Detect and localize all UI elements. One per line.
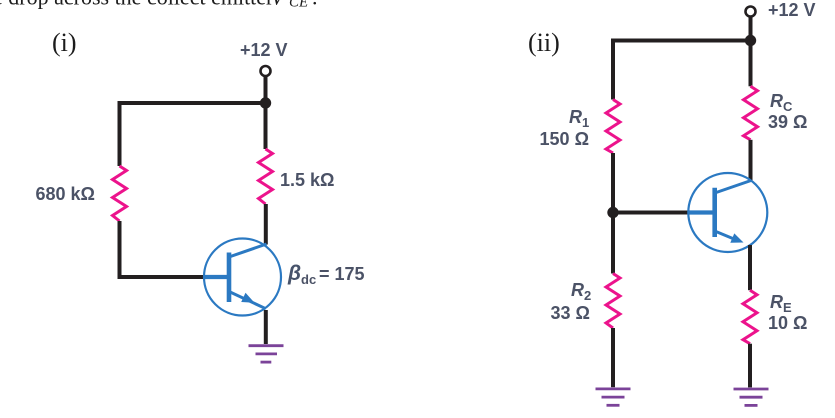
wire: mid node down to R2 (circuit ii)	[611, 213, 615, 274]
svg-text:CE: CE	[289, 0, 308, 10]
svg-text:V: V	[271, 0, 287, 9]
wire: terminal to top node (circuit i)	[264, 77, 268, 104]
svg-text:680 kΩ: 680 kΩ	[36, 184, 95, 204]
svg-text:33 Ω: 33 Ω	[551, 303, 590, 323]
svg-text:R: R	[770, 91, 783, 111]
label R2	[571, 280, 591, 303]
node: base junction (circuit ii)	[607, 207, 618, 218]
svg-text:= 175: = 175	[319, 264, 365, 284]
svg-text:R: R	[770, 292, 783, 312]
wire: emitter to RE (circuit ii)	[748, 245, 752, 290]
node: top junction (circuit ii)	[745, 35, 756, 46]
wire: RE to ground (circuit ii)	[748, 344, 752, 388]
ground (circuit ii right)	[734, 389, 769, 405]
svg-text:dc: dc	[301, 272, 316, 287]
svg-text:e drop across the collect emit: e drop across the collect emitter	[0, 0, 279, 9]
svg-text:10 Ω: 10 Ω	[768, 313, 807, 333]
svg-text:β: β	[287, 262, 301, 285]
svg-text:.: .	[312, 0, 318, 9]
caption text line (top, partially cut)	[0, 0, 318, 10]
svg-text:R: R	[569, 107, 582, 127]
svg-text:39 Ω: 39 Ω	[768, 112, 807, 132]
label RE	[770, 292, 792, 315]
svg-text:1.5 kΩ: 1.5 kΩ	[280, 170, 334, 190]
label beta_dc = 175	[287, 262, 365, 287]
transistor Q2 (circuit ii)	[688, 173, 767, 252]
svg-text:2: 2	[584, 288, 591, 303]
svg-text:1: 1	[582, 115, 589, 130]
wire: collector branch upper (circuit i)	[264, 103, 268, 149]
wire: top horizontal (circuit ii)	[613, 41, 751, 100]
resistor R2 33 Ohm	[606, 274, 620, 329]
wire: top horizontal (circuit i)	[120, 103, 266, 166]
wire: RC to collector (circuit ii)	[749, 140, 753, 181]
label R1	[569, 107, 589, 130]
transistor Q1 (circuit i)	[204, 239, 281, 316]
svg-text:(ii): (ii)	[528, 28, 560, 57]
supply terminal (circuit ii)	[746, 7, 756, 17]
wire: base horizontal (circuit ii)	[613, 211, 689, 215]
ground (circuit i)	[249, 346, 284, 362]
label RC	[770, 91, 793, 114]
wire: R1 to mid node (circuit ii)	[611, 153, 615, 213]
resistor 1.5 kOhm	[259, 149, 273, 204]
wire: R2 to ground (circuit ii)	[611, 328, 615, 387]
wire: terminal to top node (circuit ii)	[749, 17, 753, 41]
wire: top node down to RC (circuit ii)	[749, 41, 753, 87]
wire: left lower + bottom horizontal to base (circuit i)	[120, 221, 205, 277]
svg-text:+12 V: +12 V	[768, 0, 816, 20]
supply terminal (circuit i)	[261, 66, 271, 76]
resistor RC 39 Ohm	[744, 86, 758, 140]
resistor R1 150 Ohm	[606, 100, 620, 154]
svg-text:R: R	[571, 280, 584, 300]
wire: resistor to collector (circuit i)	[264, 204, 268, 245]
resistor 680 kOhm	[113, 166, 127, 221]
ground (circuit ii left)	[596, 389, 631, 405]
svg-text:(i): (i)	[52, 28, 77, 57]
node: top junction (circuit i)	[260, 97, 271, 108]
resistor RE 10 Ohm	[743, 290, 757, 344]
svg-text:150 Ω: 150 Ω	[540, 129, 589, 149]
svg-text:+12 V: +12 V	[240, 40, 288, 60]
wire: emitter to ground (circuit i)	[264, 310, 268, 344]
